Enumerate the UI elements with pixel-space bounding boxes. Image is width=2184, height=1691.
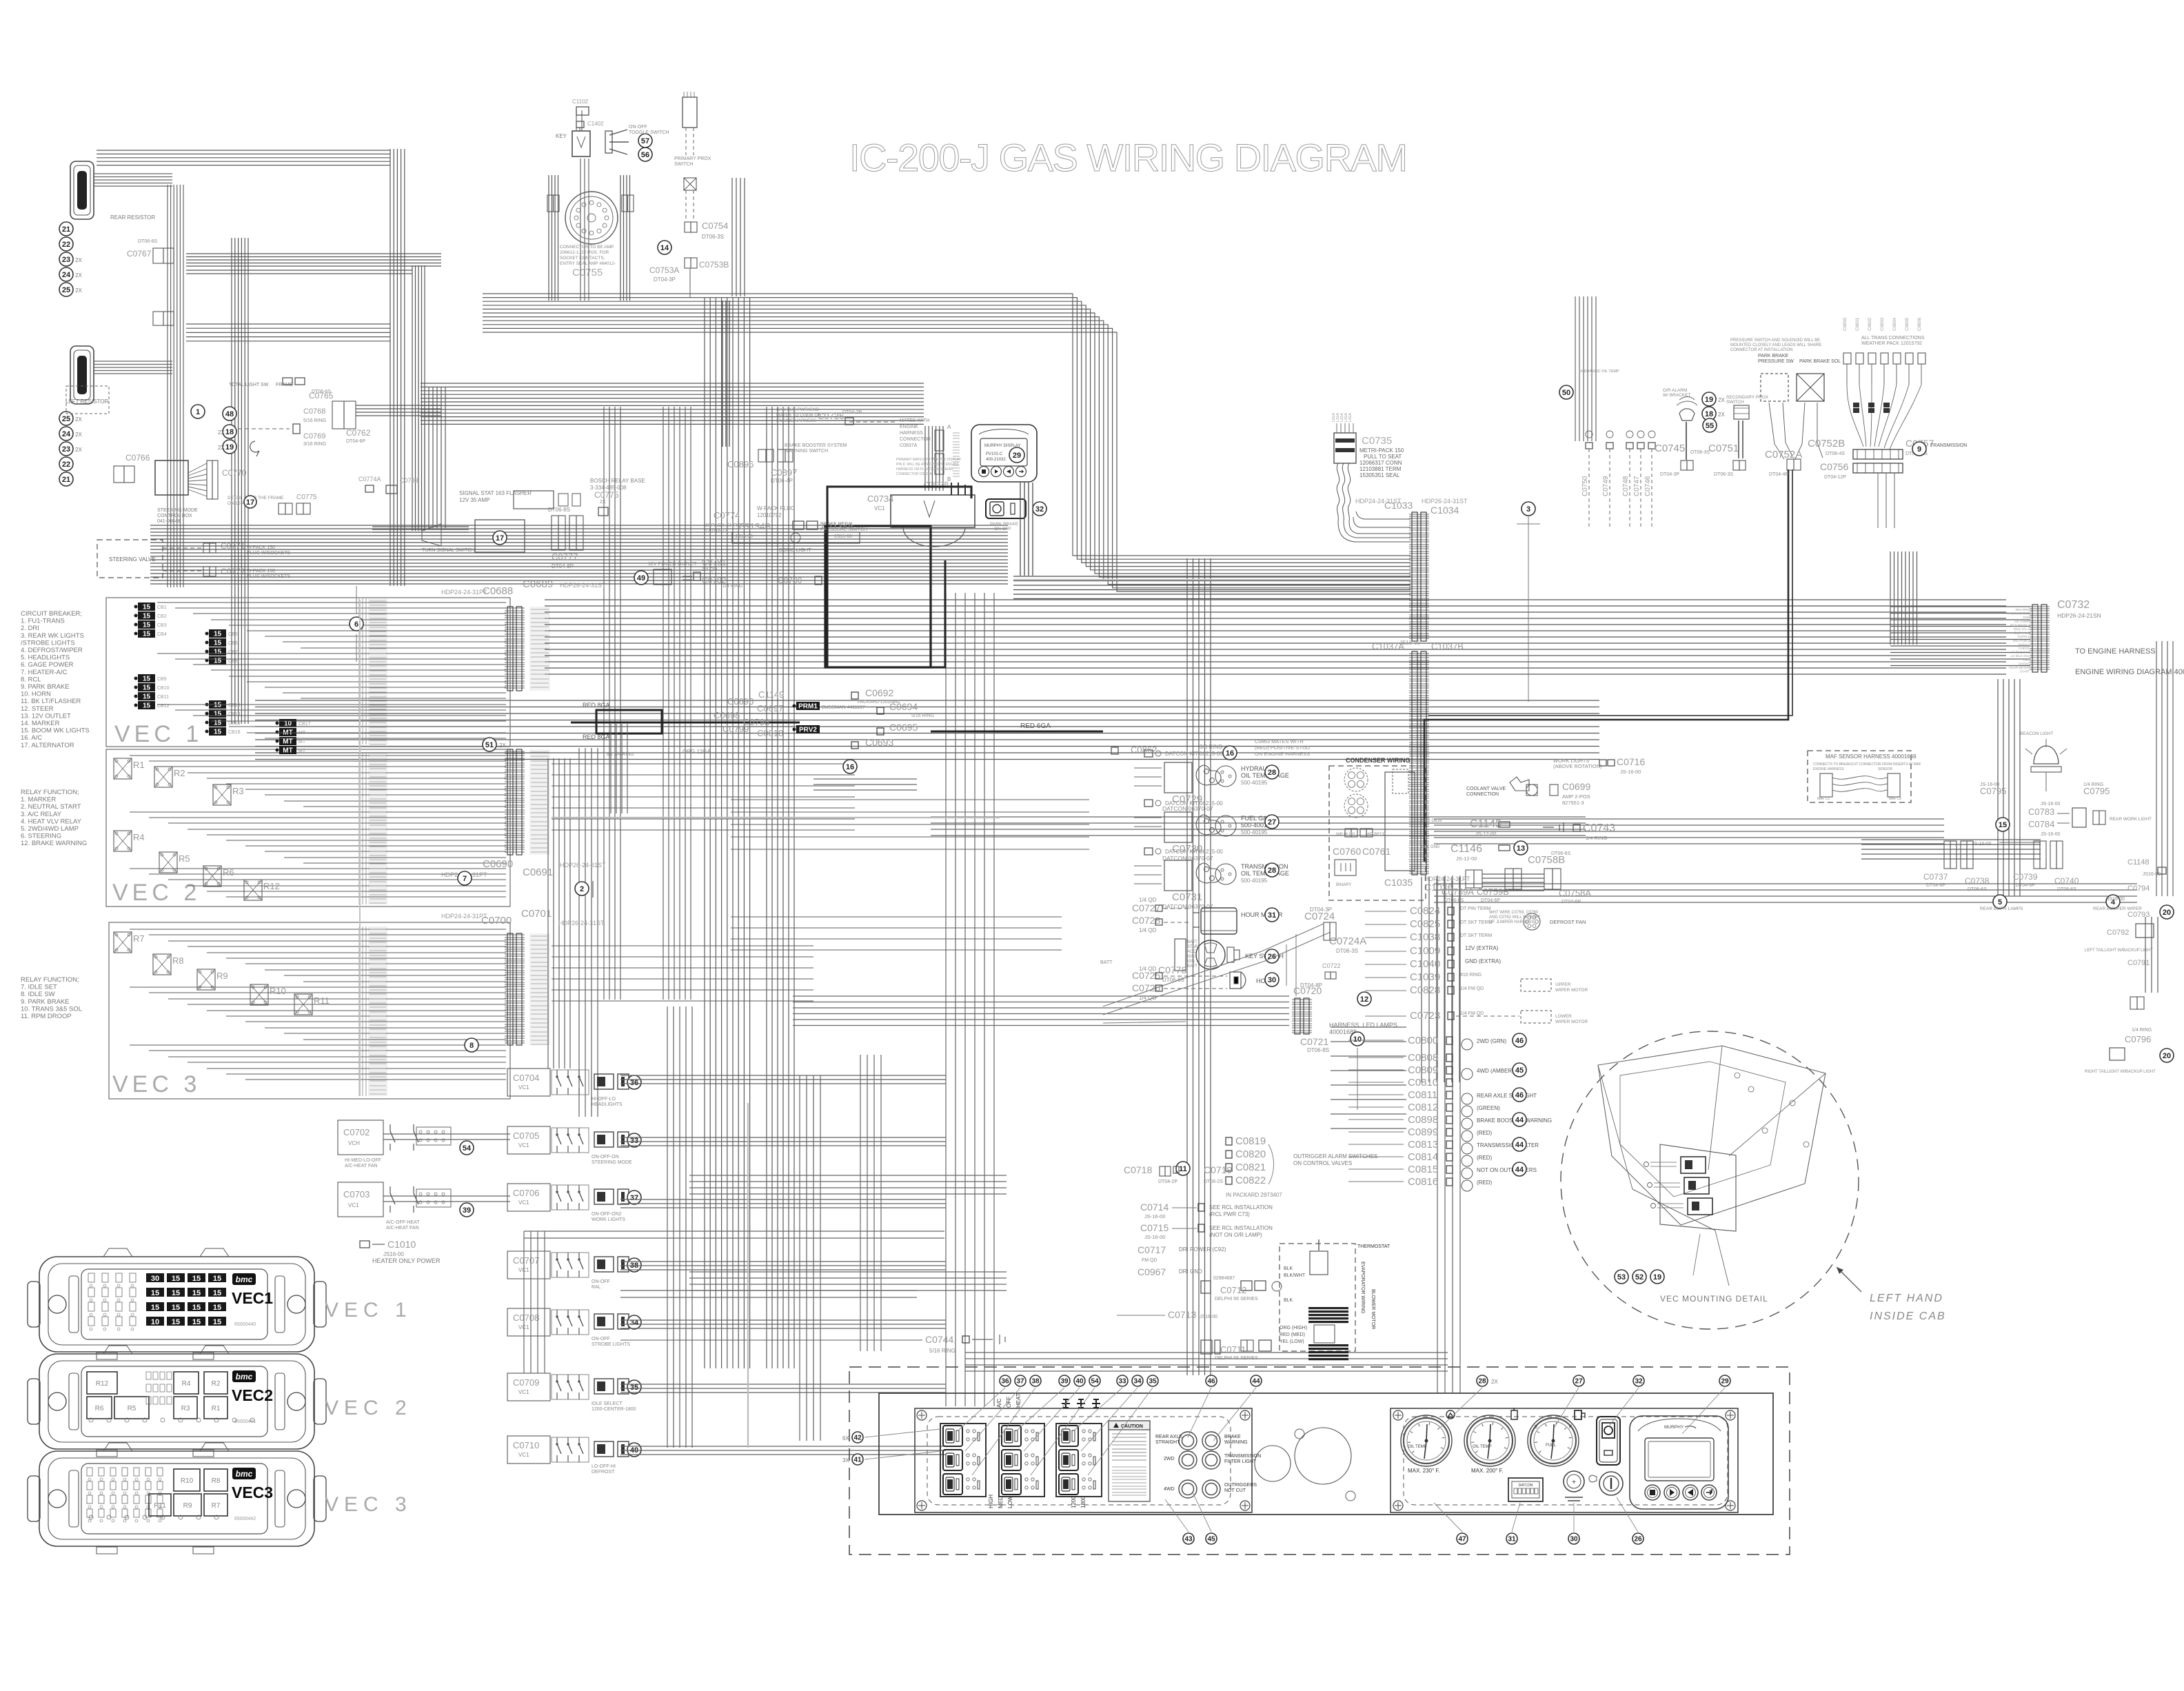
svg-text:34: 34	[1133, 1378, 1142, 1386]
svg-text:CB14: CB14	[228, 712, 241, 717]
svg-text:CONTROL BOX: CONTROL BOX	[157, 514, 192, 518]
svg-text:3/8 RING: 3/8 RING	[1200, 744, 1222, 750]
svg-text:PARK BRAKE: PARK BRAKE	[990, 522, 1019, 527]
svg-text:6. STEERING: 6. STEERING	[21, 833, 61, 840]
svg-text:43: 43	[1184, 1536, 1193, 1543]
svg-text:C0728: C0728	[1132, 915, 1160, 926]
svg-text:17: 17	[496, 534, 504, 543]
svg-text:MAX. 230° F.: MAX. 230° F.	[1408, 1468, 1440, 1474]
svg-text:2X: 2X	[499, 742, 506, 749]
svg-text:EVAPORATOR WIRING: EVAPORATOR WIRING	[1360, 1262, 1365, 1313]
svg-text:C0824: C0824	[1410, 905, 1440, 917]
svg-text:HDP24-24-31PT: HDP24-24-31PT	[441, 589, 487, 596]
svg-text:C0812: C0812	[1408, 1102, 1438, 1113]
svg-text:49: 49	[637, 574, 645, 583]
svg-text:R2: R2	[212, 1380, 221, 1388]
svg-text:VEC 3: VEC 3	[112, 1071, 201, 1097]
svg-text:11. RPM DROOP: 11. RPM DROOP	[21, 1013, 72, 1020]
svg-text:C1035: C1035	[1384, 877, 1413, 888]
svg-text:R1: R1	[133, 760, 145, 770]
svg-text:12V 35 AMP: 12V 35 AMP	[459, 497, 489, 503]
svg-text:MATES TO C0836 ON: MATES TO C0836 ON	[776, 413, 821, 418]
svg-text:15305351 SEAL: 15305351 SEAL	[1359, 472, 1400, 478]
svg-text:(RED): (RED)	[1477, 1130, 1493, 1136]
svg-text:1/4 RING: 1/4 RING	[722, 584, 742, 589]
svg-text:DT06-6S: DT06-6S	[1551, 851, 1570, 856]
svg-text:TOGGLE SWITCH: TOGGLE SWITCH	[629, 130, 669, 135]
svg-text:DT04-2P: DT04-2P	[1158, 1179, 1177, 1184]
svg-text:DATCON KIT 06215-00: DATCON KIT 06215-00	[1165, 751, 1223, 757]
svg-text:WARNING SWITCH: WARNING SWITCH	[785, 449, 828, 454]
svg-text:DT06-8S: DT06-8S	[548, 507, 570, 513]
svg-text:500-40195: 500-40195	[1241, 829, 1268, 836]
svg-text:VEC 1: VEC 1	[114, 721, 203, 747]
svg-text:DT04-2P: DT04-2P	[842, 410, 862, 415]
svg-text:CAN BUS PWR/GND: CAN BUS PWR/GND	[776, 407, 819, 412]
svg-text:SOCKET CONTACTS,: SOCKET CONTACTS,	[560, 256, 605, 261]
svg-text:R4: R4	[133, 832, 145, 842]
svg-text:C0697: C0697	[757, 703, 783, 713]
svg-text:C0780: C0780	[778, 576, 802, 585]
svg-text:C0774A: C0774A	[358, 476, 381, 483]
svg-text:DT04-6P: DT04-6P	[1561, 900, 1581, 904]
svg-text:(RED) POSITIVE STUD: (RED) POSITIVE STUD	[1255, 745, 1311, 751]
svg-text:C0834: C0834	[1892, 317, 1897, 331]
svg-text:FUEL: FUEL	[1546, 1444, 1557, 1448]
svg-text:C0713: C0713	[1168, 1309, 1196, 1320]
svg-text:RED 8GA: RED 8GA	[583, 702, 610, 709]
svg-text:YEL (LOW): YEL (LOW)	[1280, 1339, 1304, 1344]
svg-text:C0837A: C0837A	[900, 443, 918, 448]
svg-text:3X: 3X	[842, 1457, 849, 1464]
svg-text:25: 25	[62, 286, 70, 294]
svg-text:BRAKE BOOSTER SYSTEM: BRAKE BOOSTER SYSTEM	[785, 443, 847, 448]
svg-text:C1009: C1009	[1410, 945, 1440, 957]
svg-text:42: 42	[853, 1435, 862, 1442]
svg-text:STRAIGHT: STRAIGHT	[1155, 1440, 1180, 1445]
svg-text:18: 18	[225, 428, 234, 436]
svg-text:400-21032: 400-21032	[986, 458, 1006, 462]
svg-text:C1040: C1040	[1410, 958, 1440, 970]
svg-text:C0749: C0749	[1602, 476, 1610, 496]
svg-text:JS-16-00: JS-16-00	[2041, 832, 2061, 837]
svg-text:5. 2WD/4WD LAMP: 5. 2WD/4WD LAMP	[21, 825, 79, 833]
svg-text:C0835: C0835	[1905, 317, 1910, 331]
svg-text:15: 15	[214, 649, 222, 656]
svg-text:1/4 FM QD: 1/4 FM QD	[1460, 986, 1484, 991]
svg-text:R7: R7	[212, 1502, 221, 1510]
svg-text:MAF C2: MAF C2	[1889, 797, 1902, 801]
svg-text:HARNESS VIA PLASTIC HAS NEAR: HARNESS VIA PLASTIC HAS NEAR	[896, 467, 953, 472]
svg-text:RED (MED): RED (MED)	[1280, 1333, 1305, 1337]
svg-text:28: 28	[1268, 769, 1276, 777]
svg-text:C0774: C0774	[714, 510, 740, 520]
svg-text:GND: GND	[2023, 616, 2030, 619]
svg-text:RED 8GA: RED 8GA	[583, 733, 610, 740]
svg-text:C0754: C0754	[702, 221, 728, 231]
svg-text:DT06-3S: DT06-3S	[1714, 472, 1733, 477]
svg-text:12010792: 12010792	[757, 512, 782, 518]
svg-text:R10: R10	[270, 986, 286, 996]
svg-text:C0691: C0691	[523, 867, 553, 878]
svg-text:JS16-00: JS16-00	[834, 534, 852, 539]
svg-text:02984687: 02984687	[1213, 1276, 1235, 1281]
svg-text:HDP26-24-21SN: HDP26-24-21SN	[2057, 612, 2101, 619]
svg-text:C1402: C1402	[587, 121, 604, 127]
svg-text:2X: 2X	[218, 445, 225, 451]
svg-text:DT04-3P: DT04-3P	[1310, 907, 1332, 913]
svg-text:HDP26-24-31ST: HDP26-24-31ST	[560, 862, 606, 869]
svg-text:16: 16	[846, 763, 854, 771]
svg-text:C0722: C0722	[1322, 962, 1341, 969]
svg-text:37: 37	[1016, 1378, 1024, 1386]
svg-text:6: 6	[354, 620, 358, 629]
svg-text:OF JUMPER HARNESS.: OF JUMPER HARNESS.	[1489, 920, 1535, 924]
svg-text:8: 8	[469, 1042, 474, 1050]
svg-text:A/C: A/C	[996, 1398, 1002, 1408]
svg-text:ALL TRANS CONNECTIONS: ALL TRANS CONNECTIONS	[1861, 336, 1925, 341]
svg-text:R5: R5	[128, 1405, 136, 1412]
svg-text:44: 44	[1515, 1116, 1524, 1124]
svg-text:C0759A: C0759A	[1442, 887, 1474, 897]
svg-text:HEADLIGHTS: HEADLIGHTS	[591, 1102, 623, 1107]
svg-text:22: 22	[62, 460, 70, 469]
svg-text:C0967: C0967	[1137, 1266, 1166, 1277]
svg-text:1/4 RING: 1/4 RING	[2132, 1028, 2152, 1033]
svg-text:bmc: bmc	[236, 1469, 253, 1479]
svg-text:C0748: C0748	[1622, 476, 1630, 496]
svg-text:IDLE VAL 2: IDLE VAL 2	[2014, 631, 2030, 635]
svg-text:C0833: C0833	[1880, 317, 1885, 331]
svg-text:C0897: C0897	[771, 467, 797, 478]
svg-text:C0698: C0698	[714, 710, 740, 720]
svg-text:C0768: C0768	[303, 407, 325, 416]
svg-text:25: 25	[62, 415, 70, 423]
svg-text:C0793: C0793	[2127, 911, 2150, 919]
svg-text:15: 15	[192, 1289, 201, 1297]
svg-text:R9: R9	[183, 1502, 192, 1510]
svg-text:15: 15	[143, 702, 151, 710]
svg-text:C0709: C0709	[513, 1377, 539, 1388]
svg-text:65000440: 65000440	[234, 1322, 256, 1327]
svg-text:CB13: CB13	[228, 703, 241, 708]
svg-text:RED 6GA: RED 6GA	[1020, 722, 1051, 730]
svg-text:C0696: C0696	[727, 696, 754, 707]
svg-text:ON-OFF-ON2: ON-OFF-ON2	[591, 1212, 622, 1217]
svg-text:C0767: C0767	[127, 249, 152, 259]
svg-text:MAF C1: MAF C1	[1817, 797, 1830, 801]
svg-text:W-PACK PLUG: W-PACK PLUG	[757, 505, 795, 512]
svg-text:C0734: C0734	[867, 494, 893, 504]
svg-text:C0703: C0703	[343, 1189, 370, 1199]
svg-text:28: 28	[1268, 867, 1276, 875]
svg-text:DT04-6P: DT04-6P	[1481, 898, 1500, 903]
svg-text:FM QD: FM QD	[1142, 1258, 1157, 1263]
svg-text:A/C-OFF-HEAT: A/C-OFF-HEAT	[386, 1220, 420, 1225]
svg-text:VCH: VCH	[348, 1140, 360, 1146]
svg-text:PRM1: PRM1	[798, 703, 818, 711]
svg-text:TO ENGINE HARNESS: TO ENGINE HARNESS	[2075, 647, 2156, 656]
svg-text:9. PARK BRAKE: 9. PARK BRAKE	[21, 998, 70, 1006]
svg-text:PRIMARY PROX: PRIMARY PROX	[674, 156, 711, 161]
svg-text:C0701: C0701	[521, 908, 552, 920]
svg-text:DOME LIGHT: DOME LIGHT	[779, 547, 811, 553]
svg-text:AMP 2-POS: AMP 2-POS	[1562, 793, 1590, 800]
svg-text:15: 15	[214, 631, 222, 638]
svg-text:C0783: C0783	[400, 477, 418, 484]
svg-text:15: 15	[143, 622, 151, 629]
svg-text:R9: R9	[216, 971, 228, 981]
svg-text:ON-OFF: ON-OFF	[591, 1337, 610, 1341]
svg-text:36: 36	[630, 1079, 638, 1087]
svg-text:R3: R3	[181, 1405, 190, 1412]
svg-text:VC1: VC1	[348, 1202, 359, 1208]
svg-text:CB7: CB7	[228, 650, 238, 655]
svg-text:19: 19	[1653, 1273, 1661, 1282]
svg-text:VEC1: VEC1	[232, 1289, 273, 1307]
svg-text:STEERING MODE: STEERING MODE	[157, 508, 198, 513]
svg-text:CONNECTION: CONNECTION	[1466, 792, 1499, 797]
svg-text:OUTRIGGER ALARM SWITCHES: OUTRIGGER ALARM SWITCHES	[1293, 1153, 1377, 1160]
svg-text:C0836: C0836	[1917, 317, 1922, 331]
svg-text:bmc: bmc	[236, 1275, 253, 1284]
svg-text:C1038: C1038	[1410, 931, 1440, 943]
svg-text:C1146: C1146	[1450, 843, 1482, 855]
svg-text:DRI POWER (C92): DRI POWER (C92)	[1179, 1246, 1226, 1253]
svg-text:C0781: C0781	[702, 558, 727, 567]
svg-text:12103881 TERM: 12103881 TERM	[1359, 466, 1402, 472]
svg-text:14. MARKER: 14. MARKER	[21, 720, 60, 727]
svg-text:C0718: C0718	[1124, 1164, 1152, 1175]
svg-text:A/C-HEAT FAN: A/C-HEAT FAN	[386, 1226, 419, 1231]
svg-text:VEC2: VEC2	[232, 1386, 273, 1404]
svg-text:CONNECTOR AT INSTALLATION: CONNECTOR AT INSTALLATION	[1730, 348, 1792, 352]
svg-text:MT: MT	[299, 740, 306, 745]
svg-text:54: 54	[1091, 1378, 1099, 1386]
svg-text:30: 30	[1268, 976, 1276, 984]
svg-text:OIL TEMP: OIL TEMP	[1473, 1445, 1492, 1449]
svg-text:STROBE LIGHTS: STROBE LIGHTS	[591, 1342, 630, 1347]
svg-text:C1039: C1039	[1410, 971, 1440, 983]
svg-text:15: 15	[143, 613, 151, 620]
svg-text:C0766: C0766	[125, 453, 150, 463]
svg-text:ENGINE WIRING DIAGRAM 40000: ENGINE WIRING DIAGRAM 40000290	[2075, 668, 2184, 676]
svg-text:VEC 2: VEC 2	[112, 880, 201, 906]
svg-text:1/4 RING: 1/4 RING	[1586, 835, 1607, 841]
svg-text:TRANSMISSION: TRANSMISSION	[1930, 443, 1967, 448]
svg-text:REAR BMPR LAMPS: REAR BMPR LAMPS	[1980, 907, 2023, 911]
svg-text:IGN: IGN	[1187, 960, 1195, 964]
svg-text:32: 32	[1635, 1378, 1643, 1386]
svg-text:7: 7	[463, 875, 467, 883]
svg-text:15: 15	[192, 1304, 201, 1312]
svg-text:CONNECTOR: CONNECTOR	[900, 437, 931, 442]
svg-text:DT06-4P: DT06-4P	[771, 478, 793, 484]
svg-text:C1102: C1102	[572, 99, 589, 105]
svg-text:15: 15	[213, 1275, 221, 1283]
svg-text:DT04-8P: DT04-8P	[1926, 883, 1945, 888]
svg-text:C0777: C0777	[552, 551, 578, 562]
svg-text:RETURN(NC): RETURN(NC)	[2010, 623, 2030, 627]
svg-text:47: 47	[1458, 1536, 1466, 1543]
svg-text:ON-OFF: ON-OFF	[591, 1279, 610, 1284]
svg-text:VC1: VC1	[518, 1389, 529, 1395]
svg-text:2X: 2X	[1491, 1379, 1498, 1385]
svg-text:PV101-C: PV101-C	[986, 452, 1003, 456]
svg-text:BLK: BLK	[1284, 1298, 1293, 1303]
svg-text:13. 12V OUTLET: 13. 12V OUTLET	[21, 712, 71, 720]
svg-text:THERMOSTAT: THERMOSTAT	[1357, 1244, 1391, 1249]
svg-text:TRANSMISSION: TRANSMISSION	[1241, 863, 1288, 870]
svg-text:C0828: C0828	[1410, 984, 1440, 996]
svg-text:5/16 RING: 5/16 RING	[303, 418, 326, 423]
svg-text:MOUNTED CLOSELY AND LEADS WILL: MOUNTED CLOSELY AND LEADS WILL SHARE	[1730, 343, 1821, 347]
svg-text:15: 15	[172, 1304, 180, 1312]
svg-text:R6: R6	[95, 1405, 104, 1412]
svg-text:DEFROST FAN: DEFROST FAN	[1550, 919, 1586, 925]
svg-text:R6: R6	[223, 867, 234, 878]
svg-text:ON-OFF: ON-OFF	[629, 125, 647, 130]
svg-text:C0737: C0737	[1923, 872, 1948, 882]
svg-text:HDP24-24-31PT: HDP24-24-31PT	[441, 913, 487, 920]
svg-text:29: 29	[1721, 1378, 1729, 1386]
svg-text:51: 51	[485, 741, 494, 749]
svg-text:C0799: C0799	[722, 724, 749, 734]
svg-text:1. FU1-TRANS: 1. FU1-TRANS	[21, 618, 65, 625]
svg-text:DEFROST: DEFROST	[591, 1470, 615, 1475]
svg-text:C0716: C0716	[1617, 756, 1645, 767]
svg-text:C0704: C0704	[513, 1073, 539, 1083]
svg-text:NOT ON OUTRIGGERS: NOT ON OUTRIGGERS	[1477, 1167, 1537, 1173]
svg-text:44: 44	[1252, 1378, 1260, 1386]
svg-text:ON-OFF: ON-OFF	[994, 527, 1011, 531]
svg-text:2. NEUTRAL START: 2. NEUTRAL START	[21, 803, 81, 811]
svg-text:15: 15	[151, 1289, 159, 1297]
svg-text:12V (EXTRA): 12V (EXTRA)	[1465, 945, 1499, 951]
svg-text:C0724A: C0724A	[1329, 935, 1366, 947]
svg-text:PARK BRAKE SOL: PARK BRAKE SOL	[1799, 359, 1841, 364]
svg-text:C0715: C0715	[1140, 1222, 1169, 1233]
svg-text:HYDRAULIC OIL TEMP: HYDRAULIC OIL TEMP	[1579, 369, 1619, 374]
svg-text:5/16 RING: 5/16 RING	[911, 713, 934, 718]
svg-text:15: 15	[143, 676, 151, 683]
svg-text:DT04-8P: DT04-8P	[2016, 883, 2035, 888]
svg-text:LO-OFF-HI: LO-OFF-HI	[591, 1464, 616, 1469]
svg-text:C0758A: C0758A	[1559, 888, 1591, 898]
svg-text:C0743: C0743	[1583, 822, 1615, 834]
svg-text:C1037B: C1037B	[1431, 641, 1464, 651]
svg-text:R3: R3	[232, 786, 244, 796]
svg-text:O/R ALARM: O/R ALARM	[1663, 388, 1687, 393]
svg-text:C0775: C0775	[296, 494, 317, 501]
svg-text:BOSCH RELAY BASE: BOSCH RELAY BASE	[590, 478, 645, 484]
svg-text:35: 35	[630, 1384, 638, 1392]
svg-text:041-00848: 041-00848	[157, 519, 181, 524]
svg-text:CAUTION: CAUTION	[1121, 1424, 1143, 1429]
svg-text:SIGNAL: SIGNAL	[2018, 642, 2030, 646]
svg-text:(RED): (RED)	[1477, 1155, 1493, 1161]
svg-text:DT06-6S: DT06-6S	[1444, 898, 1464, 903]
svg-text:IGN: IGN	[1187, 955, 1195, 959]
svg-text:C0721: C0721	[1300, 1036, 1328, 1047]
svg-text:1: 1	[196, 408, 200, 416]
svg-text:JS16-00: JS16-00	[1399, 640, 1420, 646]
svg-text:CB15: CB15	[228, 721, 241, 726]
svg-text:TRANSMISSION FILTER: TRANSMISSION FILTER	[1477, 1142, 1539, 1148]
svg-text:DRI GND: DRI GND	[1179, 1268, 1202, 1275]
svg-text:DT04-6P: DT04-6P	[346, 439, 365, 444]
svg-text:16: 16	[1226, 749, 1234, 758]
svg-text:C0816: C0816	[1408, 1176, 1438, 1188]
svg-text:SEE RCL INSTALLATION: SEE RCL INSTALLATION	[1209, 1225, 1273, 1231]
svg-text:C0898: C0898	[1408, 1114, 1438, 1126]
svg-text:56: 56	[641, 151, 649, 159]
svg-text:DT04-3P: DT04-3P	[1660, 472, 1679, 477]
svg-text:RELAY FUNCTION;: RELAY FUNCTION;	[21, 789, 79, 796]
svg-text:REAR AXLE: REAR AXLE	[1155, 1435, 1182, 1439]
svg-text:C0744: C0744	[925, 1334, 953, 1345]
svg-text:C0708: C0708	[513, 1313, 539, 1323]
svg-text:C0810: C0810	[1408, 1077, 1438, 1088]
svg-text:SIGNAL STAT 163 FLASHER: SIGNAL STAT 163 FLASHER	[459, 490, 532, 496]
svg-text:(RED): (RED)	[1477, 1179, 1493, 1186]
svg-text:2X: 2X	[75, 257, 82, 263]
svg-text:2X: 2X	[1718, 397, 1725, 403]
svg-text:9: 9	[1917, 445, 1921, 454]
svg-text:C0702: C0702	[343, 1127, 370, 1137]
svg-text:MED: MED	[998, 1496, 1004, 1508]
svg-text:2X: 2X	[75, 432, 82, 438]
svg-text:C0693: C0693	[865, 737, 893, 748]
svg-text:VEC3: VEC3	[232, 1484, 273, 1501]
svg-text:C0739: C0739	[2013, 872, 2038, 882]
svg-text:C1134B: C1134B	[739, 521, 771, 531]
svg-text:44: 44	[1515, 1166, 1524, 1174]
svg-text:JS-16-00: JS-16-00	[1144, 1234, 1165, 1240]
svg-text:WP RECP: WP RECP	[1366, 833, 1386, 837]
svg-text:C0796: C0796	[2125, 1034, 2151, 1044]
svg-text:15: 15	[214, 658, 222, 665]
svg-text:C0710: C0710	[513, 1440, 539, 1450]
svg-text:41: 41	[853, 1457, 862, 1464]
svg-text:RED DB16: RED DB16	[1422, 819, 1442, 823]
svg-text:15: 15	[1999, 821, 2007, 829]
svg-text:C0735: C0735	[1362, 435, 1392, 447]
svg-text:6. GAGE POWER: 6. GAGE POWER	[21, 661, 74, 669]
svg-text:JS-16-00: JS-16-00	[1620, 769, 1641, 775]
svg-text:1/4 QD: 1/4 QD	[1139, 897, 1157, 903]
svg-text:R11: R11	[314, 995, 330, 1006]
svg-text:HIGH: HIGH	[988, 1495, 994, 1508]
svg-text:ON ENGINE HARNESS: ON ENGINE HARNESS	[1255, 751, 1310, 757]
svg-text:18: 18	[1705, 410, 1713, 418]
svg-text:C0688: C0688	[483, 585, 513, 597]
svg-text:C0795: C0795	[2083, 786, 2110, 796]
svg-text:30: 30	[1570, 1536, 1578, 1543]
svg-text:DT06-3S: DT06-3S	[1690, 450, 1710, 455]
svg-text:HDP26-24-31ST: HDP26-24-31ST	[1422, 498, 1468, 505]
svg-text:HDP26-24-31ST: HDP26-24-31ST	[558, 920, 605, 926]
svg-text:CHOKE: CHOKE	[2019, 662, 2030, 665]
svg-text:R11: R11	[154, 1502, 166, 1510]
svg-text:C0689: C0689	[523, 578, 553, 590]
svg-text:8. RCL: 8. RCL	[21, 676, 41, 683]
svg-text:C0760: C0760	[1333, 846, 1361, 857]
svg-text:C0736: C0736	[818, 411, 844, 421]
svg-text:LEFT TAILLIGHT W/BACKUP LIGHT: LEFT TAILLIGHT W/BACKUP LIGHT	[2085, 949, 2153, 953]
svg-text:VEC 1: VEC 1	[325, 1299, 412, 1322]
svg-text:RELAY(NC): RELAY(NC)	[2013, 639, 2030, 642]
